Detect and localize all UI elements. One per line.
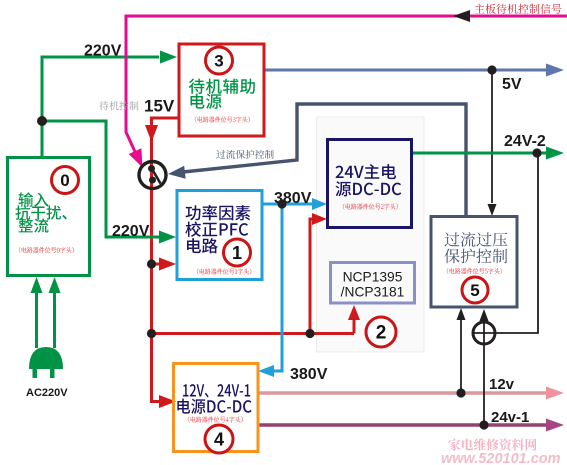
arrowhead standby control into switch (129, 148, 143, 167)
arrow summing node into protector (483, 318, 485, 322)
wire red branch to PFC (152, 263, 163, 266)
svg-text:15V: 15V (144, 97, 175, 116)
svg-text:24v-1: 24v-1 (491, 409, 529, 426)
block 4 12V 24V-1 DC-DC (174, 364, 259, 452)
wire 380V down to 12V converter (272, 204, 282, 371)
block 3 circle 3 (206, 47, 233, 74)
svg-text:220V: 220V (112, 223, 150, 240)
wire summing node to 24v-1 rail (483, 344, 485, 425)
red bus below switch (152, 189, 161, 402)
svg-text:0: 0 (60, 171, 69, 190)
AC plug symbol (29, 347, 63, 369)
svg-text:3: 3 (214, 52, 223, 71)
svg-text:1: 1 (232, 243, 242, 263)
wire 12v output (258, 391, 546, 395)
junction red bus to PFC (147, 259, 156, 268)
wire 12v sense into protector (460, 320, 462, 393)
block 5 protector (431, 217, 517, 308)
block 4 circle 4 (205, 425, 233, 453)
controller NCP1395/NCP3181 (331, 263, 415, 304)
block 1 PFC (177, 191, 262, 280)
block 5 circle 5 (462, 277, 488, 303)
wire red riser to 24V converter (310, 219, 314, 334)
svg-text:/NCP3181: /NCP3181 (341, 285, 405, 300)
wire 220V branch to PFC (42, 121, 159, 237)
junction on 12v line (456, 388, 465, 397)
block 2 subtitle (343, 203, 398, 209)
wire red branch to main converter (152, 332, 355, 335)
junction on 380V (277, 199, 286, 208)
arrowhead on standby line (453, 10, 470, 22)
label standby control signal (475, 4, 562, 14)
svg-text:NCP1395: NCP1395 (343, 270, 403, 285)
junction red bus lower (147, 329, 156, 338)
block 3 standby aux supply (179, 44, 264, 136)
svg-text:4: 4 (214, 429, 224, 449)
wire 5V output (264, 69, 546, 72)
junction on 5V (487, 65, 496, 74)
block 3 title (189, 79, 255, 94)
wire 15V from standby supply (152, 118, 180, 190)
svg-text:www.520101.com: www.520101.com (441, 451, 561, 465)
block 5 subtitle (447, 268, 502, 274)
block 2 24V main DC-DC (328, 140, 412, 228)
summing node circle (473, 322, 495, 344)
junction on 24v-1 line (479, 420, 488, 429)
block 1 title (186, 205, 251, 220)
wire red riser to NCP (353, 319, 356, 334)
junction on 24V-2 (532, 148, 541, 157)
label standby control gray (99, 101, 138, 110)
junction on 220V riser (37, 116, 47, 126)
wire standby control signal (126, 16, 567, 154)
control panel backdrop (317, 117, 425, 352)
watermark site name (449, 438, 537, 450)
svg-text:12v: 12v (489, 376, 515, 393)
wire 380V to 24V converter (262, 203, 314, 206)
block 2 title (336, 164, 397, 179)
block 3 subtitle (195, 116, 250, 122)
wire overcurrent protect control (183, 104, 466, 215)
block 5 title (445, 232, 508, 247)
block 4 subtitle (188, 416, 243, 422)
arrow AC into rectifier left (35, 293, 38, 348)
wire 5V sense into protector (491, 70, 493, 203)
wire 24v-1 output (258, 423, 546, 427)
block 0 input filter rectifier (8, 158, 90, 276)
svg-text:24V-2: 24V-2 (504, 133, 546, 150)
junction red at 310 (305, 329, 314, 338)
svg-text:5: 5 (470, 281, 479, 300)
block 0 circle 0 (52, 167, 79, 194)
wire 220V from rectifier to standby supply (42, 57, 159, 158)
svg-text:380V: 380V (290, 366, 328, 383)
block 1 subtitle (197, 268, 251, 274)
block 4 title (183, 384, 250, 397)
svg-text:2: 2 (376, 323, 387, 344)
svg-text:AC220V: AC220V (26, 387, 68, 399)
svg-text:5V: 5V (502, 76, 522, 93)
block 0 subtitle (19, 247, 74, 253)
block 0 title (19, 192, 49, 207)
wire 24V-2 sense down (496, 153, 538, 333)
block 1 circle 1 (224, 239, 251, 266)
switch node (139, 162, 166, 189)
wire 24V-2 output (412, 152, 546, 155)
arrow AC into rectifier right (53, 293, 56, 348)
label overcurrent protect control (216, 150, 273, 159)
circle 2 (366, 317, 396, 347)
svg-text:220V: 220V (84, 43, 122, 60)
